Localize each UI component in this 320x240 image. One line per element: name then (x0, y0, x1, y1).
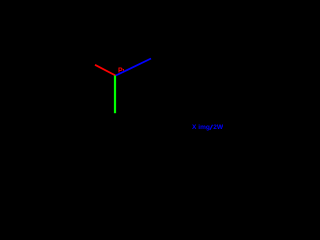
corner caption slash (210, 125, 213, 130)
svg-text:P: P (118, 68, 123, 75)
y-axis (green) (114, 76, 116, 114)
x-axis (red) (95, 65, 116, 76)
z-axis (blue) (116, 59, 151, 76)
corner caption tick after W (222, 126, 223, 127)
node P label dot (123, 69, 124, 71)
